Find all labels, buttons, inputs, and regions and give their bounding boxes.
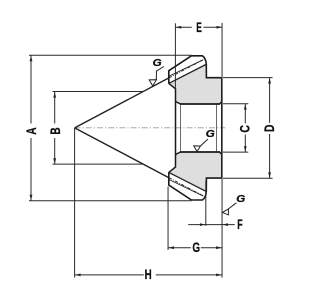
bore entry chamfers [176, 101, 222, 154]
far-side tooth tip edge, lower [169, 180, 203, 197]
bore top line [181, 103, 220, 105]
pitch cone line lower (apex to tooth) [75, 128, 169, 178]
surface finish symbol in bore (G) [194, 139, 208, 152]
dimension D (hub outside diameter) [223, 78, 273, 179]
dimension B (pitch diameter) [53, 92, 144, 165]
gear axis centerline [75, 127, 226, 129]
svg-text:D: D [261, 125, 277, 133]
pitch line dash-dot, lower tooth [169, 178, 204, 197]
gear blank outline (teeth, crests, front edges, shoulders, right face) [169, 56, 222, 200]
svg-text:F: F [237, 216, 243, 232]
pitch cone line upper (apex to tooth) [75, 78, 169, 128]
gear body section fill [169, 65, 222, 192]
tooth root line lower [169, 172, 206, 191]
bore chamfer inner edge left [179, 105, 181, 152]
svg-text:A: A [23, 127, 39, 134]
svg-text:H: H [145, 266, 152, 282]
dimension G (total hub length, bottom) [168, 187, 222, 251]
svg-text:G: G [192, 239, 200, 255]
dimension E (bore hub length, top) [175, 23, 222, 278]
svg-text:B: B [47, 127, 63, 134]
dimension F (hub projection) [188, 182, 235, 226]
dimension C (bore diameter) [223, 104, 248, 152]
pitch line dash-dot, upper tooth [169, 59, 204, 78]
bore chamfer inner edge right [216, 105, 218, 152]
dimension H (overall length from apex) [75, 128, 222, 278]
tooth root line upper [169, 65, 206, 84]
svg-text:G: G [206, 128, 215, 140]
bore bottom line [181, 151, 220, 153]
svg-text:E: E [196, 19, 202, 35]
surface finish symbol on tooth flank (G) [149, 67, 164, 87]
bore hole [176, 102, 221, 155]
back cone edges and hub rear face [169, 83, 176, 172]
far-side tooth tip edge, upper [169, 60, 203, 77]
svg-text:C: C [236, 125, 252, 133]
surface finish symbol on hub end face (G) [223, 203, 237, 215]
svg-text:G: G [236, 193, 245, 205]
svg-text:G: G [153, 57, 162, 69]
dimension A (outside diameter) [29, 55, 192, 200]
